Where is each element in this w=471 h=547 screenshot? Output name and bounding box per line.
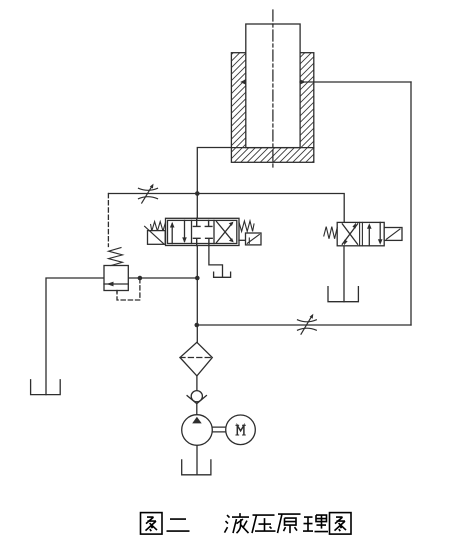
filter F1 xyxy=(180,342,212,376)
4/3 valve right solenoid xyxy=(239,233,261,245)
wire: right bus vertical xyxy=(410,82,412,325)
wire: relief vent dashed riser xyxy=(107,194,109,247)
glyph 压 xyxy=(252,515,276,533)
cylinder plunger (ram) xyxy=(246,24,300,148)
check valve (ball on seat) xyxy=(187,391,206,404)
tank under sequence valve (right) xyxy=(328,287,358,302)
wire: sequence valve to right tank xyxy=(343,246,345,302)
glyph 图 (1) xyxy=(141,513,163,535)
wire: pilot/top horizontal y=193.5 to sequence valve xyxy=(109,194,345,223)
glyph 二 xyxy=(167,519,190,531)
tank under pump xyxy=(182,460,211,475)
throttle valve (left, adjustable) xyxy=(139,184,158,204)
relief valve V1 body xyxy=(104,266,128,293)
right valve left cell crossed arrows xyxy=(342,223,357,246)
tank under relief valve (left) xyxy=(31,380,61,395)
4/3 valve left position (parallel arrows) xyxy=(170,220,187,243)
plunger seal mark left xyxy=(240,79,246,85)
hydraulic cylinder body (hatched) xyxy=(231,53,313,163)
plunger seal mark right xyxy=(300,79,306,85)
glyph 液 xyxy=(225,513,250,533)
wire: cylinder upper port to right bus xyxy=(300,81,411,83)
4/3 valve centre position (closed ports) xyxy=(193,218,212,245)
4/3 valve left solenoid xyxy=(145,226,166,244)
relief valve spring xyxy=(109,248,123,266)
throttle valve (right, adjustable) xyxy=(298,314,317,334)
wire: relief inlet from main line xyxy=(128,277,197,279)
4/3 solenoid directional valve envelope xyxy=(166,218,240,245)
wire: check valve to pump xyxy=(196,404,198,415)
caption: 图二 液压原理图 xyxy=(141,513,352,535)
tank under 4/3 valve T port (small) xyxy=(214,272,231,277)
sequence/unloading valve (right 2-position valve) xyxy=(337,222,384,245)
glyph 图 (2) xyxy=(330,513,352,535)
node: junction main line / relief inlet xyxy=(195,276,200,281)
4/3 valve right spring xyxy=(239,221,254,231)
4/3 valve right position (crossed arrows) xyxy=(217,222,234,243)
cylinder centerline xyxy=(272,10,274,168)
4/3 valve left spring xyxy=(151,222,166,231)
cylinder bottom band top edge xyxy=(231,147,313,149)
wire: P line below valve xyxy=(196,246,198,343)
glyph 原 xyxy=(278,514,301,533)
electric motor M1 xyxy=(226,415,256,445)
right valve solenoid xyxy=(384,228,402,241)
node: junction main line / bottom bus xyxy=(195,323,200,328)
wire: relief outlet to left tank xyxy=(46,278,104,395)
node: junction relief pilot tap xyxy=(138,276,143,281)
wire: relief pilot dashed loop xyxy=(117,279,140,300)
glyph 理 xyxy=(303,515,328,532)
drive shaft coupling xyxy=(212,427,225,432)
hydraulic pump P1 xyxy=(182,415,213,446)
wire: T drain stepped to small tank xyxy=(209,246,223,278)
wire: filter to check valve xyxy=(196,376,198,391)
right valve right cell parallel arrows xyxy=(367,222,383,245)
right valve spring xyxy=(324,227,337,239)
node: junction main line / pilot line xyxy=(195,191,200,196)
wire: bottom bus y=325 (right throttle line) xyxy=(197,324,411,326)
wire: pump to tank xyxy=(196,445,198,475)
wire: cylinder bottom port to main vertical xyxy=(197,148,231,219)
